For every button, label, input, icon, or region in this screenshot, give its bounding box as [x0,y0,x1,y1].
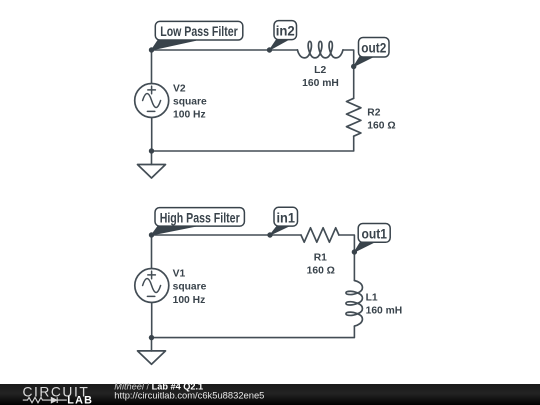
node ground1 junction dot [149,148,154,153]
flag in1 box [274,207,298,226]
wire V2 bottom to ground node [151,118,153,152]
flag in2 box [274,21,297,40]
inductor L1 coil [346,281,363,327]
ground GND1 triangle [138,165,166,179]
wire node B down to V1 top [151,235,153,269]
flag Low Pass Filter tail [152,40,197,50]
resistor R2 [347,98,361,136]
footer bar [0,384,540,405]
wire R1 to corner down to L1 [339,235,355,281]
svg-text:http://circuitlab.com/c6k5u883: http://circuitlab.com/c6k5u8832ene5 [114,390,264,401]
wire L2 to corner out2 down [343,50,354,98]
svg-text:out2: out2 [361,41,386,56]
wire V1 bottom to ground node [151,303,153,338]
node B junction dot [149,232,154,237]
svg-text:160 Ω: 160 Ω [367,121,395,132]
svg-text:square: square [173,96,207,107]
node out1 junction dot [352,249,357,254]
resistor R1 [301,228,339,242]
ground GND2 triangle [138,351,166,364]
svg-text:100 Hz: 100 Hz [173,110,206,121]
inductor L2 coil [297,41,343,58]
svg-text:R2: R2 [367,108,380,119]
V2 minus sign [147,110,154,112]
voltage source V2 circle [135,84,169,118]
flag out1 tail [354,242,374,252]
node in1 junction dot [267,232,272,237]
svg-text:160 mH: 160 mH [366,306,403,317]
node out2 junction dot [351,64,356,69]
node in2 junction dot [267,47,272,52]
flag in1 tail [270,226,289,235]
flag in2 tail [270,40,289,50]
svg-text:160 Ω: 160 Ω [307,265,335,276]
svg-text:V1: V1 [173,268,186,279]
node A junction dot [149,47,154,52]
V1 sine wave [143,279,161,293]
V1 plus sign [148,271,156,279]
svg-text:LAB: LAB [67,394,93,405]
svg-text:100 Hz: 100 Hz [173,295,206,306]
flag out2 box [359,38,390,58]
wire node A down to V2 top [151,50,153,84]
wire top rail HPF [152,234,302,236]
svg-text:in2: in2 [276,24,295,39]
svg-text:in1: in1 [276,210,295,225]
flag Low Pass Filter box [155,21,243,40]
wire R2 bottom to ground rail LPF [152,136,354,151]
flag High Pass Filter box [155,208,244,227]
svg-text:square: square [173,282,207,293]
svg-text:L1: L1 [366,293,378,304]
svg-text:L2: L2 [314,65,326,76]
wire L1 bottom to ground rail HPF [152,326,355,337]
V2 plus sign [148,86,156,94]
svg-text:Low Pass Filter: Low Pass Filter [160,24,238,39]
logo zigzag and diode [23,397,67,403]
svg-text:High Pass Filter: High Pass Filter [160,210,240,225]
svg-text:V2: V2 [173,83,186,94]
V1 minus sign [147,295,154,297]
ground GND1 stem [151,151,153,165]
svg-text:out1: out1 [361,226,387,241]
flag out2 tail [354,56,374,66]
svg-text:R1: R1 [314,252,327,263]
flag High Pass Filter tail [152,226,197,235]
flag out1 box [358,224,390,243]
V2 sine wave [143,94,161,108]
ground GND2 stem [151,338,153,351]
svg-text:160 mH: 160 mH [302,78,339,89]
wire top rail LPF [152,49,298,51]
node ground2 junction dot [149,335,154,340]
voltage source V1 circle [135,269,169,303]
